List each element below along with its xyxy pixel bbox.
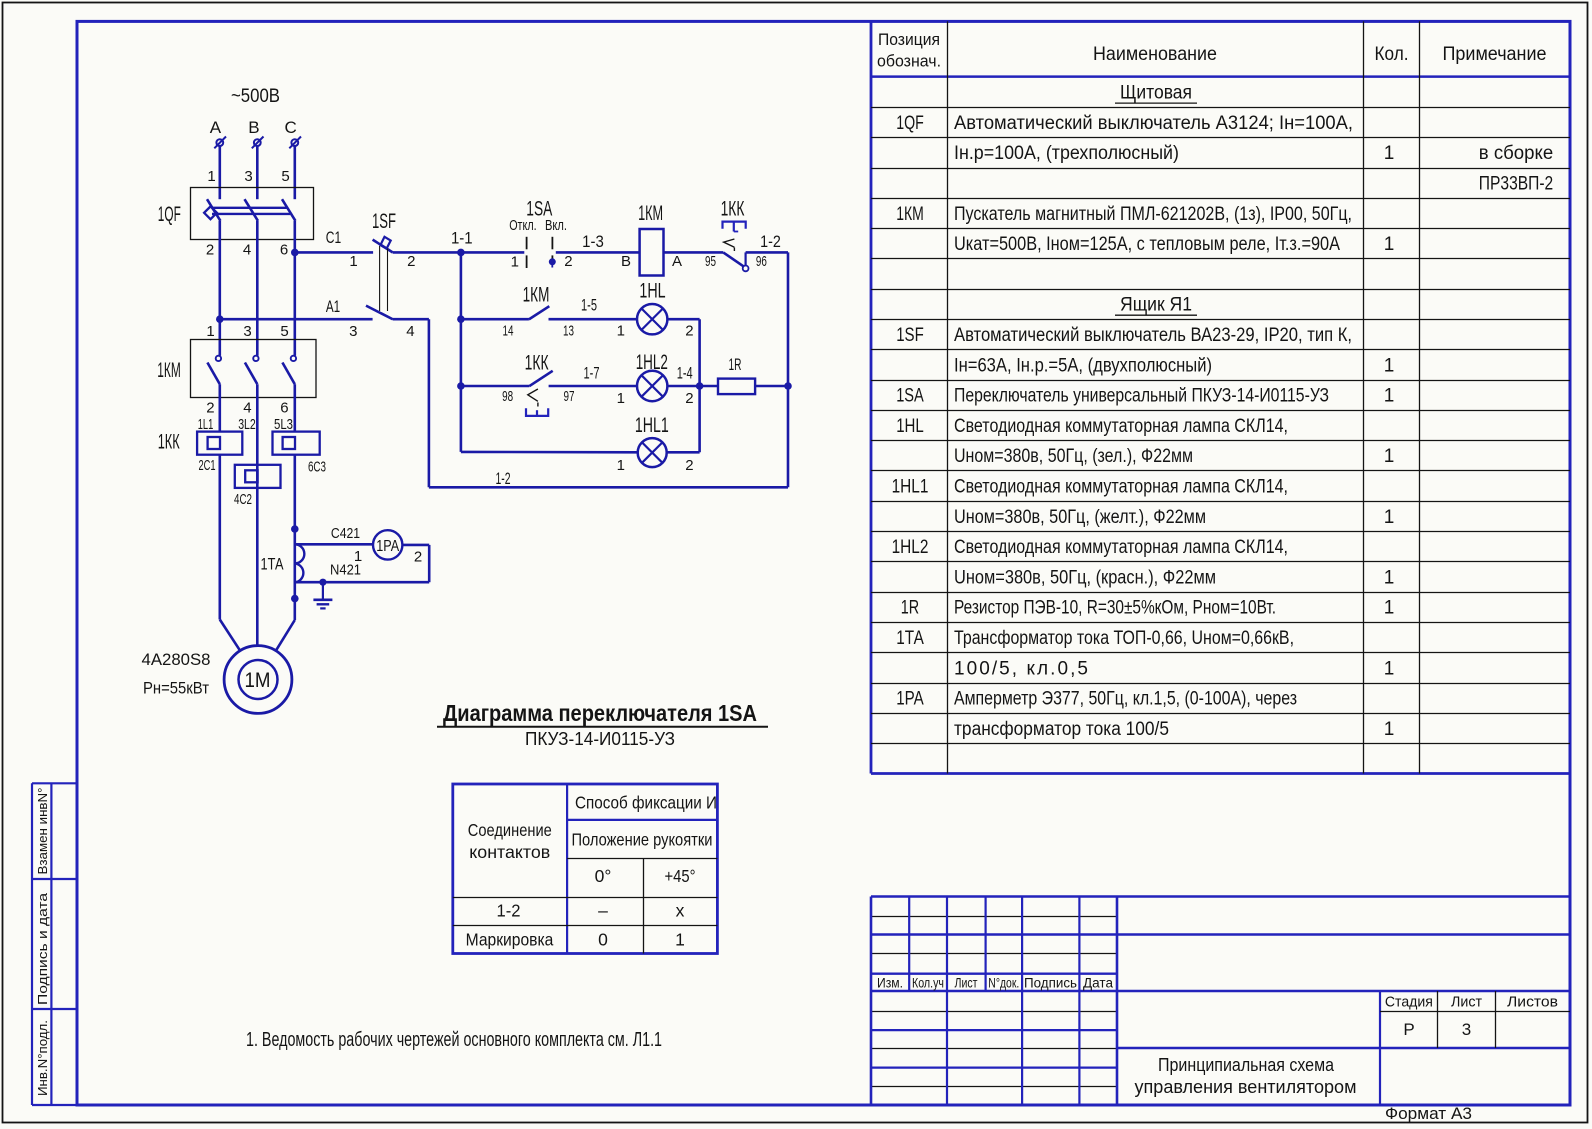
svg-text:Дата: Дата	[1083, 975, 1113, 990]
wire C heater to motor	[293, 455, 296, 620]
svg-text:1HL1: 1HL1	[892, 477, 929, 498]
stadia list table	[1380, 1011, 1570, 1013]
svg-text:Uкат=500В, Iном=125А, с теплов: Uкат=500В, Iном=125А, с тепловым реле, I…	[954, 234, 1340, 255]
svg-text:Пускатель магнитный ПМЛ-621202: Пускатель магнитный ПМЛ-621202В, (1з), I…	[954, 204, 1352, 225]
lamp 1HL	[637, 304, 667, 334]
1QF handle diamond	[204, 206, 217, 219]
wire C 1KM to 1KK heater	[293, 384, 296, 431]
svg-text:Диаграмма переключателя 1SA: Диаграмма переключателя 1SA	[443, 700, 757, 726]
svg-text:~500В: ~500В	[231, 86, 280, 107]
1KK bracket	[723, 222, 746, 229]
phase C terminal	[291, 139, 298, 146]
svg-text:1КМ: 1КМ	[638, 202, 663, 225]
svg-text:1: 1	[1384, 658, 1395, 679]
svg-text:в сборке: в сборке	[1479, 143, 1553, 164]
svg-text:1HL2: 1HL2	[636, 351, 668, 374]
svg-text:обознач.: обознач.	[877, 53, 941, 71]
svg-text:1: 1	[617, 323, 625, 340]
svg-text:2: 2	[685, 323, 693, 340]
wire B to motor	[256, 465, 259, 646]
junction bus row2	[457, 315, 465, 323]
1SA closed position dot	[549, 258, 556, 265]
svg-text:Способ фиксации И: Способ фиксации И	[575, 792, 717, 812]
svg-text:0: 0	[598, 929, 608, 949]
wire phase B 1QF to 1KM	[256, 221, 259, 356]
svg-text:1-5: 1-5	[581, 296, 597, 315]
svg-text:1КМ: 1КМ	[157, 359, 181, 382]
switch diagram table	[453, 784, 718, 954]
svg-text:A1: A1	[326, 297, 340, 316]
svg-text:2: 2	[206, 241, 214, 258]
svg-text:1HL2: 1HL2	[892, 537, 929, 558]
svg-text:Соединение: Соединение	[468, 820, 552, 840]
svg-text:Uном=380в, 50Гц, (красн.), Ф2: Uном=380в, 50Гц, (красн.), Ф22мм	[954, 567, 1216, 588]
svg-text:3: 3	[243, 323, 251, 340]
1QF pole blades	[207, 199, 220, 221]
svg-text:N421: N421	[330, 561, 361, 578]
svg-text:1: 1	[349, 253, 357, 270]
svg-text:Кол.: Кол.	[1375, 44, 1409, 65]
svg-text:Маркировка: Маркировка	[466, 929, 554, 949]
1SA contact bars	[526, 237, 528, 250]
svg-text:1КК: 1КК	[721, 198, 745, 221]
wire 1PA out	[402, 544, 429, 547]
1KM pole A contact	[216, 356, 221, 361]
svg-text:1ТА: 1ТА	[896, 628, 924, 649]
ammeter 1PA	[373, 530, 402, 559]
breaker 1SF pole 1	[373, 240, 393, 253]
wire coil to 1KK contact	[664, 251, 724, 254]
svg-text:5: 5	[280, 323, 288, 340]
wire phase C drop	[293, 146, 296, 199]
motor 1M	[224, 646, 292, 714]
svg-text:1: 1	[1384, 355, 1395, 376]
1KK aux chevron	[528, 389, 538, 401]
thermal relay contact 1KK NC	[723, 252, 744, 266]
wire 1SA to 1KM coil	[556, 251, 640, 254]
lamp 1HL2	[637, 371, 667, 401]
svg-text:1: 1	[1384, 234, 1395, 255]
bus 1-1 vertical	[460, 252, 463, 452]
svg-text:13: 13	[563, 323, 574, 340]
svg-text:4: 4	[406, 323, 414, 340]
svg-text:0°: 0°	[595, 866, 612, 886]
svg-text:2: 2	[407, 253, 415, 270]
resistor 1R	[718, 379, 755, 395]
svg-text:Амперметр Э377, 50Гц, кл.1,5,: Амперметр Э377, 50Гц, кл.1,5, (0-100А), …	[954, 689, 1297, 710]
svg-text:1: 1	[617, 457, 625, 474]
svg-text:В: В	[248, 118, 259, 137]
svg-text:Позиция: Позиция	[878, 31, 940, 49]
svg-text:В: В	[621, 253, 631, 270]
svg-text:1: 1	[1384, 386, 1395, 407]
phase B terminal	[254, 139, 261, 146]
svg-text:1: 1	[1384, 507, 1395, 528]
1QF linkage bars	[212, 207, 288, 209]
svg-text:Стадия: Стадия	[1385, 993, 1433, 1010]
title underline	[437, 726, 768, 728]
svg-text:Светодиодная коммутаторная лам: Светодиодная коммутаторная лампа СКЛ14,	[954, 416, 1288, 437]
svg-text:95: 95	[705, 253, 716, 270]
junction right rail row3	[784, 382, 792, 390]
svg-text:Кол.уч: Кол.уч	[912, 975, 944, 990]
svg-text:Трансформатор тока ТОП-0,66, U: Трансформатор тока ТОП-0,66, Uном=0,66кВ…	[954, 628, 1294, 649]
wire A1	[220, 318, 373, 321]
svg-text:6: 6	[280, 241, 288, 258]
1SF linkage	[379, 246, 381, 311]
junction ground tap	[319, 579, 326, 586]
svg-text:1-2: 1-2	[497, 900, 521, 920]
right rail 1-2	[787, 252, 790, 487]
svg-text:1R: 1R	[729, 355, 742, 374]
svg-text:1: 1	[207, 168, 215, 185]
svg-text:Подпись и дата: Подпись и дата	[36, 893, 50, 1005]
svg-text:трансформатор тока 100/5: трансформатор тока 100/5	[954, 719, 1169, 740]
svg-text:1SF: 1SF	[896, 325, 924, 346]
svg-text:Инв.N°подл.: Инв.N°подл.	[36, 1020, 50, 1096]
svg-text:1КК: 1КК	[525, 351, 549, 374]
svg-text:1: 1	[1384, 446, 1395, 467]
svg-text:3: 3	[244, 168, 252, 185]
svg-text:Принципиальная схема: Принципиальная схема	[1158, 1055, 1335, 1075]
svg-text:Положение рукоятки: Положение рукоятки	[572, 829, 713, 849]
svg-text:3: 3	[349, 323, 357, 340]
svg-text:Iн.р=100А, (трехполюсный): Iн.р=100А, (трехполюсный)	[954, 143, 1179, 164]
wire V2 vertical	[698, 319, 701, 452]
label Взамен инв№	[36, 788, 50, 875]
svg-text:Светодиодная коммутаторная лам: Светодиодная коммутаторная лампа СКЛ14,	[954, 477, 1288, 498]
svg-text:Взамен инвN°: Взамен инвN°	[36, 788, 50, 875]
wire phase B drop	[256, 146, 259, 199]
lamp 1HL1	[638, 438, 667, 467]
svg-text:C1: C1	[326, 228, 341, 247]
left margin stamp boxes	[32, 782, 77, 784]
wire phase C 1QF to 1KM	[293, 221, 296, 356]
svg-text:4С2: 4С2	[234, 491, 252, 508]
svg-text:Подпись: Подпись	[1024, 975, 1077, 990]
svg-text:Переключатель универсальный ПК: Переключатель универсальный ПКУЗ-14-И011…	[954, 386, 1329, 407]
svg-text:1: 1	[1384, 567, 1395, 588]
svg-text:1-2: 1-2	[495, 469, 510, 488]
svg-text:97: 97	[564, 388, 575, 405]
current transformer 1TA arcs	[295, 544, 305, 582]
svg-text:1-3: 1-3	[582, 232, 604, 251]
svg-text:1HL1: 1HL1	[635, 414, 669, 437]
wire contact to 1HL2	[549, 385, 638, 388]
svg-text:Ящик Я1: Ящик Я1	[1120, 295, 1192, 316]
svg-text:1КМ: 1КМ	[896, 204, 924, 225]
svg-text:1L1: 1L1	[198, 416, 214, 433]
svg-text:1QF: 1QF	[158, 203, 181, 226]
svg-text:1КК: 1КК	[158, 431, 180, 454]
svg-text:100/5, кл.0,5: 100/5, кл.0,5	[954, 658, 1088, 679]
wire 1SF pole2 out	[393, 318, 429, 321]
svg-text:1. Ведомость рабочих чертежей: 1. Ведомость рабочих чертежей основного …	[246, 1029, 662, 1051]
svg-text:управления вентилятором: управления вентилятором	[1135, 1077, 1357, 1097]
svg-text:1HL: 1HL	[896, 416, 924, 437]
svg-text:N°док.: N°док.	[988, 975, 1019, 990]
svg-text:6С3: 6С3	[308, 458, 326, 475]
wire 1KK to right rail	[746, 251, 788, 254]
svg-text:2: 2	[414, 548, 422, 565]
breaker 1SF pole 2	[366, 306, 393, 320]
1KK heater phase A	[197, 432, 242, 455]
svg-text:1: 1	[1384, 143, 1395, 164]
junction A1 tap	[216, 315, 224, 323]
wire A 1KM to 1KK heater	[219, 384, 222, 431]
svg-text:Примечание: Примечание	[1443, 44, 1547, 65]
wire bus to 1KM contact	[461, 318, 529, 321]
svg-text:1-4: 1-4	[677, 364, 693, 383]
svg-text:Автоматический выключатель ВА2: Автоматический выключатель ВА23-29, IР20…	[954, 325, 1352, 346]
svg-text:Наименование: Наименование	[1093, 44, 1217, 65]
wire phase A 1QF to 1KM	[219, 221, 222, 356]
wire left rail down	[428, 319, 431, 487]
svg-text:А: А	[672, 253, 682, 270]
label Подпись и дата	[36, 893, 50, 1005]
junction V2 row3	[696, 382, 704, 390]
wire bus to 1HL1	[461, 451, 638, 454]
contactor coil 1KM	[640, 229, 664, 276]
svg-text:3: 3	[1462, 1020, 1471, 1039]
svg-text:5L3: 5L3	[274, 416, 293, 433]
svg-text:2: 2	[564, 253, 572, 270]
svg-text:4: 4	[243, 241, 251, 258]
wire C1	[295, 251, 373, 254]
svg-text:1-1: 1-1	[451, 228, 473, 247]
title block	[871, 895, 1570, 897]
wire bus to 1KK contact	[461, 385, 529, 388]
wire 1R to right rail	[755, 385, 788, 388]
svg-text:А: А	[210, 118, 222, 137]
junction CT top	[291, 525, 299, 533]
svg-text:Листов: Листов	[1507, 993, 1558, 1010]
svg-text:х: х	[676, 900, 685, 920]
1KK heater phase C	[273, 432, 320, 455]
svg-text:Лист: Лист	[1451, 993, 1482, 1010]
svg-text:14: 14	[503, 323, 514, 340]
svg-text:Формат А3: Формат А3	[1385, 1104, 1472, 1123]
auxiliary contact 1KM NO	[529, 306, 549, 319]
circuit breaker 1QF box	[191, 188, 314, 240]
junction bus 1-1 top	[457, 249, 465, 257]
svg-text:1SA: 1SA	[896, 386, 924, 407]
svg-text:98: 98	[502, 388, 513, 405]
svg-text:96: 96	[756, 253, 767, 270]
label Инв.№подл.	[36, 1020, 50, 1096]
svg-text:1КМ: 1КМ	[523, 284, 550, 307]
bottom rail 1-2	[429, 486, 788, 489]
wire A heater to motor	[219, 455, 222, 620]
svg-text:2: 2	[685, 457, 693, 474]
svg-text:Изм.: Изм.	[877, 975, 903, 990]
svg-text:1R: 1R	[901, 598, 919, 619]
svg-text:1-7: 1-7	[584, 364, 600, 383]
contactor 1KM box	[191, 340, 317, 398]
svg-text:1: 1	[617, 390, 625, 407]
svg-text:2С1: 2С1	[198, 457, 215, 474]
svg-text:1ТА: 1ТА	[261, 555, 284, 574]
wire N421	[295, 581, 429, 584]
1KM pole B contact	[253, 356, 258, 361]
svg-text:Uном=380в, 50Гц, (желт.), Ф22: Uном=380в, 50Гц, (желт.), Ф22мм	[954, 507, 1206, 528]
svg-text:4: 4	[243, 399, 251, 416]
svg-text:Iн=63А, Iн.р.=5А, (двухполюсны: Iн=63А, Iн.р.=5А, (двухполюсный)	[954, 355, 1212, 376]
svg-text:4А280S8: 4А280S8	[142, 650, 211, 669]
svg-text:3L2: 3L2	[238, 416, 256, 433]
junction CT bottom	[291, 595, 299, 603]
svg-text:1: 1	[675, 929, 685, 949]
1KM pole C contact	[291, 356, 296, 361]
svg-text:–: –	[598, 900, 608, 920]
wire 1HL to V2	[667, 318, 699, 321]
wire junction to 1R	[700, 385, 718, 388]
svg-text:5: 5	[281, 168, 289, 185]
svg-text:Р: Р	[1403, 1020, 1414, 1039]
svg-text:С: С	[285, 118, 297, 137]
svg-text:1HL: 1HL	[639, 280, 665, 303]
wire C to motor	[276, 620, 295, 651]
wire 1HL2 to junction	[667, 385, 699, 388]
ground symbol	[322, 582, 324, 600]
svg-text:Светодиодная коммутаторная лам: Светодиодная коммутаторная лампа СКЛ14,	[954, 537, 1288, 558]
wire 1HL1 to V2	[667, 451, 700, 454]
junction bus row3	[457, 382, 465, 390]
wire B 1KM to 1KK heater	[256, 384, 259, 465]
wire A to motor	[220, 620, 240, 651]
wire phase A drop	[219, 146, 222, 199]
svg-text:1SF: 1SF	[372, 210, 396, 233]
svg-text:2: 2	[206, 399, 214, 416]
svg-text:Откл.: Откл.	[509, 217, 536, 234]
svg-text:C421: C421	[331, 525, 360, 542]
junction C1 tap	[291, 249, 299, 257]
svg-text:+45°: +45°	[665, 866, 696, 886]
svg-text:1: 1	[1384, 719, 1395, 740]
wire 1PA right drop	[428, 545, 431, 582]
wire C421	[295, 543, 373, 546]
svg-text:1: 1	[511, 253, 519, 270]
1KK aux bracket	[526, 408, 548, 416]
svg-text:1: 1	[206, 323, 214, 340]
svg-text:Автоматический выключатель А31: Автоматический выключатель А3124; Iн=100…	[954, 113, 1353, 134]
svg-text:Щитовая: Щитовая	[1120, 83, 1192, 104]
svg-text:Рн=55кВт: Рн=55кВт	[143, 679, 209, 698]
svg-text:2: 2	[685, 390, 693, 407]
1KK heater phase B	[235, 465, 281, 488]
svg-text:1РА: 1РА	[896, 689, 924, 710]
wire 1SF to 1SA	[393, 251, 525, 254]
1KK chevron	[724, 239, 735, 247]
svg-text:контактов: контактов	[469, 842, 550, 862]
svg-text:6: 6	[280, 399, 288, 416]
wire contact to 1HL	[549, 318, 638, 321]
parts list table	[870, 21, 873, 773]
phase A terminal	[216, 139, 223, 146]
svg-text:ПКУЗ-14-И0115-УЗ: ПКУЗ-14-И0115-УЗ	[525, 729, 675, 749]
thermal relay contact 1KK NO	[529, 371, 553, 386]
svg-text:1-2: 1-2	[760, 232, 781, 251]
svg-text:1М: 1М	[245, 669, 271, 692]
svg-text:Uном=380в, 50Гц, (зел.), Ф22м: Uном=380в, 50Гц, (зел.), Ф22мм	[954, 446, 1193, 467]
svg-text:Вкл.: Вкл.	[545, 217, 567, 234]
svg-text:1: 1	[1384, 598, 1395, 619]
svg-text:1QF: 1QF	[896, 113, 924, 134]
svg-text:ПР33ВП-2: ПР33ВП-2	[1479, 174, 1553, 195]
svg-text:Резистор ПЭВ-10, R=30±5%кОм, Р: Резистор ПЭВ-10, R=30±5%кОм, Рном=10Вт.	[954, 598, 1276, 619]
svg-text:1РА: 1РА	[376, 538, 400, 555]
svg-text:Лист: Лист	[955, 975, 978, 990]
